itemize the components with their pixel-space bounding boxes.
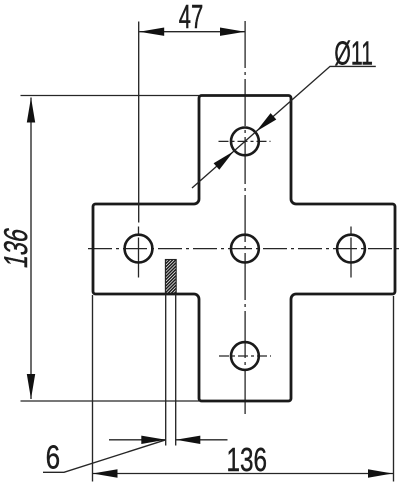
svg-text:6: 6: [46, 439, 61, 476]
svg-text:136: 136: [227, 441, 268, 478]
svg-text:Ø11: Ø11: [334, 34, 373, 71]
svg-text:47: 47: [179, 0, 204, 35]
svg-text:136: 136: [0, 225, 35, 271]
